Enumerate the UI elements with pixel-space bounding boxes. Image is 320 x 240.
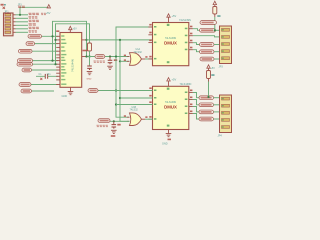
connector JP1 pin 5 stub: [13, 28, 16, 30]
DMUX1 output Y3 number: [190, 47, 192, 49]
wire DMUX1 Y1 to JP3: [193, 36, 220, 37]
DMUX2 output Y0 stub: [189, 92, 193, 94]
wire R2 down: [214, 17, 216, 30]
resistor R2: [213, 7, 217, 15]
IC1 GND pin stub: [70, 87, 72, 91]
DMUX2 output Y2 name: [185, 106, 188, 108]
net label pill L4: [18, 59, 33, 63]
ground below C2: [87, 72, 93, 75]
symbol small red cross top-left: [3, 7, 5, 9]
net label pill RU5: [200, 57, 214, 61]
junction pi2 left cross: [54, 39, 56, 41]
DMUX2 output Y1 name: [185, 99, 188, 101]
DMUX2 pin A number: [149, 87, 151, 89]
gate U1B input stubs: [127, 117, 130, 121]
wire pill RL3 to JP4: [214, 111, 220, 113]
DMUX1 output Y0 number: [190, 26, 192, 28]
svg-text:GND: GND: [87, 79, 92, 81]
DMUX2 output Y3 stub: [189, 113, 193, 115]
junction V120 top: [119, 39, 121, 41]
net label pill RU1: [200, 21, 217, 25]
net label pill RL4: [199, 117, 214, 121]
DMUX1 pin G stub: [148, 58, 152, 60]
IC1 left pin 12 stub: [56, 72, 60, 74]
supply +5V symbol top-left: [47, 5, 50, 8]
connector JP3 pad 5: [222, 57, 230, 60]
DMUX2 pin G number: [149, 116, 151, 118]
wire JP1 pin 1 to net label: [16, 14, 29, 16]
IC1 left pin 3 stub: [56, 43, 60, 45]
wire pill RU2 to JP3: [216, 29, 220, 31]
net label row 5: [29, 27, 39, 29]
wire V116 to DMUX2 C: [116, 104, 153, 106]
IC1 left pin 7 stub: [56, 57, 60, 59]
IC1 pin name 7: [61, 57, 64, 58]
IC1 left pin 8 stub: [56, 60, 60, 62]
connector JP3 pin number 2: [222, 36, 224, 37]
capacitor C4 gap mask: [46, 76, 47, 78]
net label pill RU4: [200, 50, 215, 54]
wire DMUX2 Y3 jog to pill: [193, 114, 200, 120]
junction R1 bottom: [88, 55, 90, 57]
net label pill DMUX2A: [88, 89, 98, 93]
capacitor C5: [112, 125, 117, 129]
wire pill RL4 to JP4: [214, 118, 220, 120]
connector JP3 pad 3: [222, 43, 230, 46]
IC1 left pin 1 stub: [56, 35, 60, 37]
IC1 pin name 15: [61, 84, 66, 85]
DMUX1 pin C number: [149, 40, 151, 42]
connector JP1 pin 1 stub: [13, 14, 16, 16]
net label pill L6: [22, 68, 32, 72]
net label pill B1: [98, 119, 110, 123]
IC1 left pin 11 stub: [56, 69, 60, 71]
wire vertical V120 to gate2: [120, 40, 130, 121]
wire gate1 out to DMUX1 G: [145, 58, 153, 60]
pin number 16 DMUX2: [167, 88, 170, 90]
svg-text:+5V: +5V: [72, 27, 77, 30]
IC1 left pin 14 stub: [56, 79, 60, 81]
svg-text:JP3: JP3: [219, 66, 224, 69]
svg-text:GND: GND: [62, 95, 68, 98]
DMUX2 pin C name: [154, 104, 156, 106]
junction pi1 right cross: [85, 39, 87, 41]
supply +5V above R3: [207, 65, 210, 68]
wire JP1 pin 5 to net label: [16, 28, 29, 30]
net label row 2: [29, 16, 38, 18]
net label row 3: [29, 20, 39, 22]
pin number gate2 in1: [124, 115, 126, 117]
gate U1A input stubs: [127, 57, 130, 62]
capacitor C4 series: [45, 74, 47, 79]
gate U1B output stub: [142, 118, 146, 120]
wire pill B1 row: [110, 120, 130, 122]
net label pill L3: [19, 49, 33, 53]
capacitor C3: [108, 60, 113, 64]
IC1 left pin 13 stub: [56, 75, 60, 77]
svg-text:74LS139N: 74LS139N: [179, 19, 191, 22]
net label pill RL1: [199, 96, 214, 100]
wire pill RL1 to JP4: [214, 97, 220, 99]
supply +5V stub: [48, 6, 50, 9]
supply +5V above DMUX1: [167, 14, 170, 17]
connector JP4 pin number 3: [222, 112, 224, 113]
wire JP1 pin 2 to net label: [16, 17, 29, 19]
ground below IC1: [68, 92, 74, 95]
wire pill5 to IC1: [32, 63, 58, 65]
value R3 text: [211, 74, 214, 76]
IC1 left pin 5 stub: [56, 50, 60, 52]
DMUX2 pin G name: [154, 118, 156, 120]
DMUX2 output Y3 number: [190, 111, 192, 113]
connector JP1 pin 2 stub: [13, 17, 16, 19]
junction V116 x DMUX2 C row: [115, 103, 117, 105]
wire pill RU4 to JP3: [214, 51, 220, 53]
resistor R3: [207, 71, 211, 79]
wire pin1 up branch vertical: [19, 7, 21, 15]
junction R2 pillB row: [214, 29, 216, 31]
net label pill L1: [28, 34, 42, 38]
DMUX1 output Y2 name: [185, 42, 188, 44]
capacitor C3 stub: [109, 57, 111, 61]
net label pill on gate1 wire: [95, 55, 105, 59]
name C3 text: [114, 59, 117, 61]
DMUX1 output Y1 name: [185, 35, 188, 37]
svg-text:74LS244N: 74LS244N: [71, 59, 75, 72]
IC1 pin name 12: [61, 72, 66, 73]
DMUX2 pin A name: [154, 90, 156, 92]
resistor R1: [88, 43, 92, 51]
connector JP4 body: [220, 95, 232, 133]
gate U1A output stub: [142, 58, 146, 60]
DMUX1 output Y2 number: [190, 40, 192, 42]
DMUX2 output Y2 number: [190, 104, 192, 106]
or-gate U1B: [130, 113, 142, 126]
wire +5V horizontal: [20, 6, 48, 8]
text mark top-left corner red: [1, 4, 4, 6]
net label row 6: [29, 30, 37, 32]
wire vertical V116 with top to DMUX1 A: [116, 27, 153, 117]
IC1 right pin 16 stub: [82, 56, 87, 58]
DMUX2 output Y1 stub: [189, 99, 193, 101]
IC1 right pin 15 stub: [82, 39, 87, 41]
wire DMUX2 Y1 jog to pill: [193, 100, 200, 105]
svg-text:74LS32: 74LS32: [134, 51, 143, 54]
connector JP4 pad 5: [222, 126, 230, 129]
DMUX2 pin C stub: [148, 104, 152, 106]
connector JP4 pin number 5: [222, 126, 224, 127]
wire R1 bottom to row: [89, 51, 91, 57]
net label pill RL3: [199, 110, 214, 114]
connector JP3 pad 1: [222, 28, 230, 31]
wire cap C2 drop: [89, 57, 91, 67]
connector JP1 pad 4: [5, 24, 11, 26]
value R1 text: [83, 50, 88, 52]
DMUX1 GND pin number 8: [167, 61, 170, 63]
value C3 text: [94, 61, 105, 63]
connector JP1 pad 3: [5, 21, 11, 23]
net label row 1b: [41, 13, 46, 15]
net label pill RL2: [199, 103, 214, 107]
supply +5V above IC1: [69, 26, 72, 29]
IC IC1 body: [60, 33, 82, 88]
supply +5V above DMUX2: [167, 78, 170, 81]
wire pill L7: [31, 90, 54, 92]
junction pin1 branch: [19, 14, 21, 16]
connector JP1 pin 3 stub: [13, 21, 16, 23]
junction cap C3 tap: [109, 55, 111, 57]
junction IC1 pin16 wire: [85, 55, 87, 57]
DMUX1 pin A number: [149, 24, 151, 26]
DMUX2 pin G stub: [148, 118, 152, 120]
wire JP1 pin 4 to net label: [16, 24, 29, 26]
or-gate U1A: [130, 53, 142, 66]
supply +5V above R2: [213, 1, 216, 4]
svg-text:+5V: +5V: [46, 11, 51, 15]
wire DMUX2 Y0 jog to pill: [193, 93, 200, 98]
DMUX2 output Y1 number: [190, 97, 192, 99]
wire pi-route 1 (over IC1 to right): [53, 21, 87, 60]
wire pill2 to IC1: [34, 43, 58, 45]
IC1 left pin 9 stub: [56, 63, 60, 65]
svg-text:74LS139N: 74LS139N: [180, 83, 192, 86]
IC U2A DMUX1 body: [153, 23, 189, 66]
IC1 pin name 2: [61, 39, 65, 40]
svg-text:DMUX: DMUX: [164, 41, 177, 46]
DMUX2 GND pin number 8: [167, 125, 170, 127]
IC1 VCC pin stub: [69, 30, 71, 33]
DMUX1 output Y3 stub: [189, 49, 193, 51]
IC1 pin name 10: [61, 66, 64, 67]
ground below DMUX2: [166, 134, 172, 137]
IC1 pin name 3: [61, 43, 66, 44]
connector JP1 pad 5: [5, 28, 11, 30]
text mark top-left corner teal: [4, 4, 6, 6]
wire DMUX1 Y0 to pill: [193, 29, 200, 31]
svg-text:+5V: +5V: [172, 14, 177, 18]
DMUX1 pin G name: [154, 58, 156, 60]
value C5 text: [97, 125, 108, 127]
wire JP1 pin 3 to net label: [16, 21, 29, 23]
junction R3 pill row: [207, 96, 209, 98]
wire pill4 to IC1: [32, 60, 58, 62]
R3 bottom stub: [208, 79, 210, 82]
DMUX1 output Y1 stub: [189, 35, 193, 37]
IC1 left pin 15 stub: [56, 84, 60, 86]
connector JP3 pin number 3: [222, 43, 224, 44]
junction V120 DMUX2 B row: [119, 97, 121, 99]
connector JP1 pad 6: [5, 31, 11, 33]
junction cap C5 tap: [113, 120, 115, 122]
connector JP4 pad 1: [222, 97, 230, 100]
net label row 4: [29, 23, 36, 25]
connector JP4 pin number 2: [222, 105, 224, 106]
svg-text:74LS32: 74LS32: [130, 109, 139, 112]
connector JP3 pad 4: [222, 50, 230, 53]
DMUX2 pin B stub: [148, 97, 152, 99]
pin number DMUX2 gnd red: [168, 139, 172, 141]
wire DMUX2 Y2 jog to pill: [193, 107, 200, 112]
wire row y56 to gate1: [87, 56, 130, 58]
DMUX1 pin B number: [149, 32, 151, 34]
DMUX1 pin B name: [154, 34, 156, 36]
DMUX2 output Y2 stub: [189, 106, 193, 108]
DMUX1 VCC pin stub: [168, 18, 170, 23]
DMUX1 pin G number: [149, 56, 151, 58]
value text PINHD red: [18, 6, 25, 8]
svg-text:+5V: +5V: [211, 67, 216, 70]
net label row 1: [29, 13, 39, 15]
junction pi2 bottom: [54, 63, 56, 65]
connector JP4 pad 2: [222, 104, 230, 107]
DMUX2 VCC pin stub: [168, 81, 170, 86]
connector JP3 pin number 4: [222, 50, 224, 51]
wire JP1 pin 6 to net label: [16, 31, 29, 33]
value R2 text: [217, 15, 220, 17]
pin number 16 DMUX1: [167, 24, 170, 26]
junction V120 gate1 in2: [119, 60, 121, 62]
DMUX1 output Y3 name: [185, 49, 188, 51]
IC U2B DMUX2 body: [153, 86, 189, 129]
net label pill L2: [26, 42, 35, 46]
net label pill L5: [17, 62, 33, 66]
wire pill3 to IC1: [31, 50, 58, 52]
DMUX1 pin A name: [154, 26, 156, 28]
name C5 text: [117, 124, 120, 126]
DMUX2 output Y0 name: [185, 92, 188, 94]
wire pill6 to IC1: [31, 69, 58, 71]
wire pill RU3 to JP3: [214, 44, 220, 46]
DMUX1 output Y0 name: [185, 28, 188, 30]
svg-text:10n: 10n: [47, 73, 52, 76]
connector JP4 pad 3: [222, 111, 230, 114]
net label pill L7: [19, 83, 31, 87]
IC1 pin name 1: [61, 35, 64, 36]
IC1 left pin 2 stub: [56, 39, 60, 41]
svg-text:+5V: +5V: [172, 78, 177, 82]
wire pi-route 2 (over IC1 to resistor): [56, 24, 90, 64]
ground below C5: [111, 130, 117, 133]
IC1 pin name 13: [61, 75, 64, 76]
connector JP3 pad 2: [222, 36, 230, 39]
wire gate2 out to DMUX2 G: [145, 118, 153, 120]
IC1 left pin 4 stub: [56, 46, 60, 48]
DMUX1 pin C name: [154, 42, 156, 44]
pin number gate2 out: [145, 116, 147, 118]
wire C4 row: [36, 75, 58, 77]
wire DMUX1 Y2 jog: [193, 43, 200, 45]
wire gate1 in2: [120, 60, 130, 62]
connector JP1 pin 6 stub: [13, 31, 16, 33]
junction V116 x gate1 row: [115, 55, 117, 57]
IC1 pin name 9: [61, 63, 66, 64]
wire R3 down: [208, 82, 210, 97]
DMUX1 pin B stub: [148, 34, 152, 36]
IC1 pin name 5: [61, 50, 65, 51]
DMUX1 output Y2 stub: [189, 42, 193, 44]
DMUX1 output Y0 stub: [189, 28, 193, 30]
svg-text:JP1: JP1: [4, 10, 9, 14]
wire V120 to DMUX2 B: [120, 97, 153, 99]
wire pill7 to IC1: [30, 84, 58, 86]
DMUX1 output Y1 number: [190, 33, 192, 35]
DMUX2 pin C number: [149, 101, 151, 103]
wire pill RU5 to JP3: [214, 58, 220, 60]
pin number gate1 out: [145, 56, 147, 58]
connector JP1 pad 2: [5, 17, 11, 19]
connector JP3 pin number 1: [222, 29, 224, 30]
net label pill RU2: [200, 28, 216, 32]
IC1 pin name 8: [61, 60, 65, 61]
DMUX2 output Y0 number: [190, 90, 192, 92]
connector JP3 body: [220, 26, 232, 64]
svg-text:JP4: JP4: [218, 135, 223, 138]
wire bus W2 y40 to DMUX1 B: [87, 39, 153, 41]
ground below C3: [107, 66, 113, 69]
DMUX2 GND pin stub: [168, 130, 170, 134]
R2 bottom stub: [214, 14, 216, 17]
pin number gate1 in2: [124, 59, 126, 61]
wire pill RL2 to JP4: [214, 104, 220, 106]
junction pi1 bottom: [51, 60, 53, 62]
connector JP1 pin 4 stub: [13, 24, 16, 26]
connector JP4 pad 4: [222, 119, 230, 122]
DMUX1 pin A stub: [148, 26, 152, 28]
connector JP1 pad 1: [5, 14, 11, 16]
connector JP1 body: [4, 13, 14, 36]
R3 top stub: [208, 68, 210, 70]
IC1 pin name 4: [61, 46, 64, 47]
capacitor C5 stub: [113, 121, 115, 124]
connector JP4 pin number 1: [222, 98, 224, 99]
net label pill L7: [21, 89, 32, 93]
IC1 pin name 11: [61, 69, 65, 70]
IC1 left pin 10 stub: [56, 66, 60, 68]
capacitor C2: [87, 66, 92, 70]
junction R2 pillA: [214, 21, 216, 23]
IC1 left pin 6 stub: [56, 54, 60, 56]
IC1 pin name 14: [61, 79, 65, 80]
net label pill RU3: [200, 43, 215, 47]
connector JP3 pin number 5: [222, 58, 224, 59]
R2 top stub: [214, 5, 216, 7]
pin number gate1 in1: [124, 55, 126, 57]
junction V116 x DMUX2 A row: [115, 89, 117, 91]
DMUX2 pin B number: [149, 95, 151, 97]
svg-text:DMUX: DMUX: [164, 105, 177, 110]
svg-text:GND: GND: [162, 143, 168, 146]
connector JP4 pin number 4: [222, 119, 224, 120]
wire pill to DMUX2 A: [98, 90, 153, 92]
wire DMUX1 Y3 jog: [193, 50, 200, 52]
IC1 pin1 number red: [56, 30, 59, 32]
mark red cross C4: [40, 78, 42, 80]
IC1 pin name 6: [61, 54, 66, 55]
DMUX2 pin A stub: [148, 90, 152, 92]
DMUX2 pin B name: [154, 97, 156, 99]
junction pi1 left cross: [51, 35, 53, 37]
wire pill1 to IC1: [41, 35, 58, 37]
label GND below C5: [111, 135, 116, 137]
DMUX2 output Y3 name: [185, 113, 188, 115]
DMUX1 pin C stub: [148, 42, 152, 44]
